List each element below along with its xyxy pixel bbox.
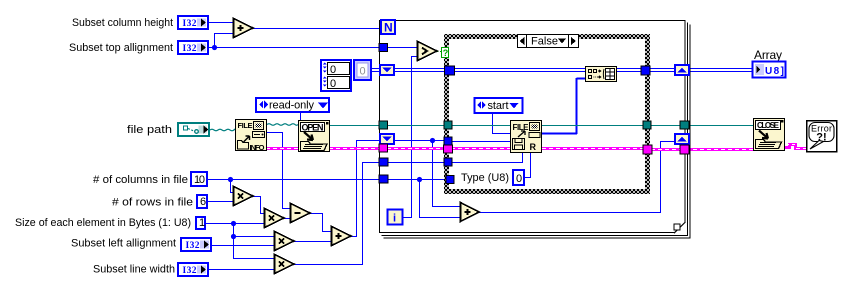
- File Info function icon: [236, 120, 267, 153]
- case selector terminal ?: [442, 48, 449, 58]
- tunnel: error loop left: [379, 144, 388, 152]
- Open File function icon: [299, 121, 330, 152]
- wire: subtract output to plus2 top input: [310, 214, 332, 232]
- wire: 10 columns constant to loop tunnel B: [208, 179, 381, 181]
- svg-text:FILE: FILE: [238, 121, 253, 130]
- svg-text:N: N: [384, 21, 393, 35]
- shift register 2 right (up arrow): [675, 134, 689, 144]
- svg-text:Array: Array: [754, 48, 782, 62]
- add node (column height + top allignment): [234, 19, 254, 38]
- tunnel: error case right: [643, 145, 652, 154]
- terminal I32 Subset left allignment: [181, 238, 211, 251]
- wire: start ring stub to Read File pos mode input: [493, 113, 511, 134]
- wire: 1 size constant to mult2 bottom input: [206, 223, 265, 225]
- svg-text:10: 10: [194, 174, 205, 186]
- svg-text:?: ?: [443, 48, 449, 58]
- Array [U8] indicator terminal: [753, 62, 786, 78]
- build array node: [586, 67, 617, 82]
- svg-text:file path: file path: [127, 124, 172, 136]
- svg-text:read-only: read-only: [269, 100, 315, 112]
- wire: mult4 output up to loop tunnel A: [294, 163, 380, 265]
- wire: path wavy wire File Info to Open: [267, 124, 298, 126]
- tunnel: count wire loop left (A): [379, 158, 388, 166]
- wire: error cluster wire from File Info to Close and Error dialog: [266, 145, 806, 150]
- svg-text:start: start: [488, 100, 509, 112]
- for loop folded corner: [674, 222, 686, 234]
- case selector label False: [518, 35, 579, 48]
- multiply node line width x size: [275, 255, 295, 274]
- read-only ring constant: [256, 98, 329, 112]
- tunnel: refnum case left: [444, 121, 452, 129]
- svg-text:Subset line width: Subset line width: [93, 264, 175, 276]
- tunnel: array out of case right: [641, 66, 650, 75]
- wire: Read File data output to Build Array element input: [542, 78, 585, 134]
- multiply node x element size: [265, 209, 285, 228]
- tunnel: line width loop left (B): [379, 175, 388, 183]
- N loop count terminal: [381, 20, 395, 34]
- wire: mult1 output to mult2 top input: [253, 197, 265, 214]
- svg-text:False: False: [531, 36, 558, 48]
- for loop border with stacked frames: [380, 21, 691, 239]
- start ring constant: [475, 98, 523, 113]
- constant 6: [197, 195, 207, 208]
- tunnel: refnum loop right: [680, 121, 689, 129]
- empty array constant: [354, 60, 371, 80]
- wire: branch down from 10-wire junction to mult1 top input: [231, 180, 235, 193]
- svg-text:1: 1: [199, 217, 205, 229]
- shift register 1 right (up arrow): [675, 65, 689, 75]
- wire: mult3 output to plus2 bottom input: [294, 241, 332, 243]
- wire: boolean dotted wire Greater output to case selector: [437, 51, 442, 53]
- svg-text:0: 0: [360, 66, 366, 78]
- svg-text:0: 0: [330, 78, 336, 90]
- wire: Subset top allignment to Greater node top input: [209, 47, 417, 49]
- add node offset: [332, 227, 352, 246]
- wire: file path wavy wire from terminal to File Info: [210, 129, 235, 131]
- wire: 6 rows constant to mult1 bottom input: [208, 201, 234, 203]
- constant 0 type: [513, 170, 524, 185]
- tunnel: count wire case left (C): [444, 158, 452, 166]
- wire: size branch down to mult3 top input: [234, 224, 276, 237]
- Read File function icon: [511, 121, 542, 153]
- constant 10: [191, 172, 207, 186]
- i iteration terminal: [388, 210, 403, 225]
- svg-text:CLOSE: CLOSE: [757, 121, 780, 130]
- wire: branch down from SR2 wire to plusL top input: [433, 141, 462, 207]
- svg-text:INFO: INFO: [250, 143, 265, 152]
- svg-text:Size of each element in Bytes: Size of each element in Bytes (1: U8): [15, 217, 191, 229]
- case structure checkered border: [444, 34, 650, 194]
- tunnel: loop count wire: [379, 44, 388, 52]
- svg-text:Subset top allignment: Subset top allignment: [69, 42, 173, 54]
- svg-text:Subset column height: Subset column height: [72, 17, 173, 29]
- increment add node in loop: [461, 203, 480, 222]
- wire: read-only ring stub to Open icon: [300, 112, 302, 120]
- wire: tunnel B wire inside loop with branch down to plusL bottom input: [388, 179, 446, 181]
- svg-text:i: i: [393, 213, 396, 225]
- tunnel: error case left: [444, 145, 453, 153]
- svg-text:# of columns in file: # of columns in file: [93, 174, 188, 186]
- svg-text:I32: I32: [183, 266, 197, 276]
- wire: Type 0 constant to Read File bottom input: [525, 152, 531, 178]
- wire: Subset column height to add1: [208, 22, 233, 24]
- svg-text:Subset left allignment: Subset left allignment: [71, 238, 176, 250]
- file path control terminal: [178, 123, 209, 136]
- terminal I32 Subset column height: [178, 16, 208, 29]
- wire: refnum wire from Open through loop and case to Read File and Close: [330, 125, 754, 127]
- multiply node left allignment x size: [275, 232, 295, 251]
- wire: plusL output to right shift register 2: [478, 142, 674, 213]
- wire: Subset left allignment terminal to mult3 bottom input: [211, 245, 275, 247]
- tunnel: array into case left: [445, 66, 455, 75]
- tunnel: path/refnum loop left: [379, 121, 388, 129]
- svg-text:0: 0: [516, 173, 522, 185]
- shift register 2 left (down arrow): [380, 134, 394, 144]
- svg-text:0: 0: [330, 64, 336, 76]
- constant 1: [196, 217, 205, 229]
- cluster constant with two 0 values: [321, 60, 351, 91]
- svg-text:?!: ?!: [816, 132, 826, 144]
- svg-text:I32: I32: [183, 19, 197, 29]
- wire: branch up from junction to add1 bottom input: [215, 34, 234, 48]
- svg-text:6: 6: [200, 196, 206, 208]
- wire: add1 output to N count terminal: [253, 28, 381, 30]
- wire: 2D array double line from cluster constant through shift register 1, Build Array, to Array indicator: [371, 69, 753, 72]
- tunnel: SR2 wire into case: [444, 137, 452, 145]
- wire: File Info size output down to subtract top input: [267, 133, 291, 209]
- wire: Subset line width terminal to mult4 bottom input: [208, 269, 275, 271]
- terminal I32 Subset line width: [178, 263, 208, 276]
- multiply node cols x rows: [234, 187, 254, 206]
- svg-text:I32: I32: [186, 241, 200, 251]
- svg-text:Type (U8): Type (U8): [461, 172, 509, 184]
- svg-text:# of rows in file: # of rows in file: [112, 197, 193, 209]
- wire: plus2 output up to left shift register 2: [351, 141, 379, 237]
- simple error handler icon: [807, 121, 837, 152]
- Close File function icon: [754, 119, 785, 151]
- wire: mult2 output to subtract bottom input: [284, 218, 291, 220]
- svg-text:U8]: U8]: [765, 66, 784, 77]
- tunnel: refnum case right: [643, 121, 651, 129]
- greater-than comparison node: [418, 42, 438, 61]
- tunnel: error loop right: [680, 145, 689, 154]
- svg-text:OPEN: OPEN: [302, 123, 324, 133]
- svg-text:R: R: [530, 142, 537, 152]
- wire: i terminal up to Greater node bottom input: [403, 57, 417, 218]
- svg-text:FILE: FILE: [513, 123, 530, 132]
- shift register 1 left (down arrow): [380, 65, 394, 75]
- junction dots: [212, 45, 435, 239]
- wire: size branch down to mult4 top input: [234, 237, 276, 259]
- svg-text:I32: I32: [183, 44, 197, 54]
- wire: shift register 2 to case tunnel and Read File offset input: [395, 140, 444, 142]
- subtract node: [291, 204, 311, 223]
- wire: tunnel A into case (count): [388, 162, 444, 164]
- tunnel: line width case left (D, unwired inside): [446, 176, 454, 184]
- terminal I32 Subset top allignment: [178, 41, 208, 54]
